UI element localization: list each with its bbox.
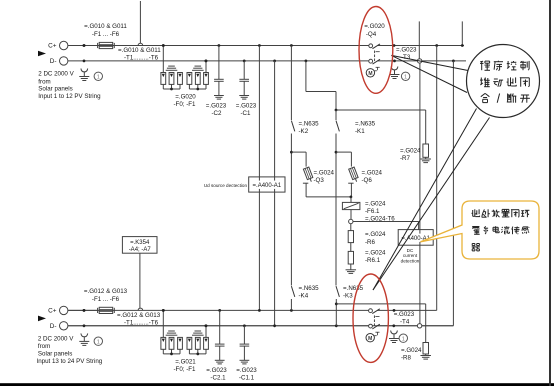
svg-text:=.G024-T6: =.G024-T6	[365, 216, 395, 223]
svg-text:=.N635: =.N635	[355, 121, 376, 128]
svg-text:=.G021: =.G021	[175, 358, 196, 365]
svg-text:=.G024: =.G024	[365, 250, 386, 257]
svg-text:=.A400-A1: =.A400-A1	[253, 183, 282, 189]
svg-text:=.G024: =.G024	[400, 147, 421, 154]
svg-text:DC: DC	[407, 248, 414, 253]
svg-text:=.G024: =.G024	[314, 170, 335, 177]
svg-text:-C2.1: -C2.1	[210, 375, 226, 382]
svg-text:-C1: -C1	[241, 110, 252, 117]
svg-text:-Q4: -Q4	[366, 31, 377, 38]
svg-text:Solar panels: Solar panels	[38, 351, 72, 358]
svg-text:-T4: -T4	[400, 319, 410, 326]
svg-text:=.G012 & G013: =.G012 & G013	[84, 288, 128, 295]
svg-text:-R6: -R6	[365, 239, 376, 246]
svg-text:-R8: -R8	[401, 355, 412, 362]
svg-text:-K1: -K1	[355, 128, 365, 135]
svg-text:2 DC 2000 V: 2 DC 2000 V	[38, 336, 74, 343]
svg-text:-A4; -A7: -A4; -A7	[129, 247, 152, 253]
svg-text:D-: D-	[50, 323, 57, 330]
svg-text:detection: detection	[401, 259, 420, 264]
svg-text:current: current	[403, 253, 418, 258]
svg-text:D-: D-	[50, 58, 57, 65]
svg-text:-F1 ... -F6: -F1 ... -F6	[92, 296, 120, 303]
svg-text:=.G023: =.G023	[206, 367, 227, 374]
svg-text:1: 1	[97, 74, 100, 80]
svg-text:=.G010 & G011: =.G010 & G011	[118, 47, 161, 54]
svg-text:=.G023: =.G023	[394, 311, 415, 318]
svg-text:=.G020: =.G020	[364, 23, 385, 30]
svg-text:-R7: -R7	[400, 155, 411, 162]
svg-text:=.G023: =.G023	[396, 47, 417, 54]
svg-text:C+: C+	[48, 308, 57, 315]
svg-text:from: from	[38, 343, 50, 350]
svg-text:-T1.........-T6: -T1.........-T6	[124, 320, 159, 327]
svg-text:Solar panels: Solar panels	[38, 86, 72, 93]
svg-text:Input 1 to 12 PV String: Input 1 to 12 PV String	[38, 93, 101, 100]
svg-text:Ud source dectection: Ud source dectection	[204, 183, 248, 188]
svg-text:-K2: -K2	[299, 128, 309, 135]
svg-text:=.G023: =.G023	[206, 102, 227, 109]
svg-text:-T1.........-T6: -T1.........-T6	[124, 54, 159, 61]
svg-text:=.G023: =.G023	[236, 102, 257, 109]
svg-text:=.G024: =.G024	[362, 170, 383, 177]
svg-text:-Q6: -Q6	[362, 177, 373, 184]
svg-text:-R6.1: -R6.1	[365, 257, 381, 264]
svg-text:=.G024: =.G024	[365, 200, 386, 207]
svg-text:=.K354: =.K354	[130, 240, 150, 246]
svg-text:-F0; -F1: -F0; -F1	[173, 101, 196, 108]
svg-text:=.N635: =.N635	[299, 285, 320, 292]
svg-text:M: M	[368, 336, 372, 342]
svg-text:-F0; -F1: -F0; -F1	[173, 366, 196, 373]
svg-text:=.G023: =.G023	[236, 367, 257, 374]
svg-text:1: 1	[404, 74, 407, 80]
svg-text:C+: C+	[48, 43, 57, 50]
svg-text:1: 1	[402, 336, 405, 342]
svg-text:M: M	[368, 71, 372, 77]
svg-text:=.G010 & G011: =.G010 & G011	[84, 23, 127, 30]
svg-text:=.G024: =.G024	[401, 347, 422, 354]
svg-text:=.N635: =.N635	[299, 121, 320, 128]
svg-text:-Q3: -Q3	[314, 177, 325, 184]
svg-text:=.N635: =.N635	[343, 285, 364, 292]
svg-text:Input 13 to 24 PV String: Input 13 to 24 PV String	[37, 358, 103, 365]
svg-text:-K3: -K3	[343, 293, 353, 300]
svg-text:=.G024: =.G024	[365, 231, 386, 238]
svg-text:-F1 ... -F6: -F1 ... -F6	[92, 31, 120, 38]
svg-text:=.G020: =.G020	[175, 93, 196, 100]
svg-text:-C2: -C2	[212, 110, 223, 117]
svg-text:=.G012 & G013: =.G012 & G013	[117, 312, 161, 319]
svg-text:1: 1	[97, 339, 100, 345]
svg-text:from: from	[38, 78, 50, 85]
svg-text:-C1.1: -C1.1	[239, 375, 255, 382]
svg-text:2 DC 2000 V: 2 DC 2000 V	[38, 71, 74, 78]
svg-text:-F6.1: -F6.1	[365, 208, 380, 215]
svg-text:-K4: -K4	[299, 293, 309, 300]
